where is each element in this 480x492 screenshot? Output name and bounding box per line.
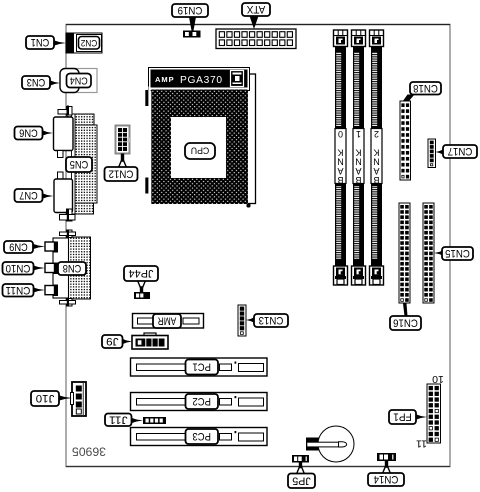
label CN2 xyxy=(79,37,100,50)
svg-text:CN10: CN10 xyxy=(6,262,31,274)
jumper JP5 xyxy=(292,455,309,463)
svg-text:J11: J11 xyxy=(109,413,128,425)
label CN15 xyxy=(434,247,473,260)
svg-text:A: A xyxy=(337,166,343,176)
label CN1 xyxy=(26,36,66,49)
header J11 xyxy=(143,417,166,424)
header CN15 xyxy=(423,203,434,303)
socket left tabs xyxy=(145,87,150,196)
svg-text:A: A xyxy=(355,166,361,176)
svg-text:J10: J10 xyxy=(36,392,55,404)
svg-text:PC3: PC3 xyxy=(192,430,211,442)
label CN9 xyxy=(4,241,45,254)
svg-text:0: 0 xyxy=(338,129,343,139)
svg-text:ATX: ATX xyxy=(246,3,265,15)
CPU socket lever bar xyxy=(247,74,255,204)
svg-text:JP44: JP44 xyxy=(129,267,154,279)
socket text AMP PGA370 xyxy=(155,75,223,86)
DIMM slot BANK 0 xyxy=(334,30,348,285)
label CN4 xyxy=(67,74,92,88)
label CN10 xyxy=(3,262,46,275)
svg-text:CN1: CN1 xyxy=(31,36,50,48)
label AMR xyxy=(153,314,181,328)
svg-text:PC2: PC2 xyxy=(192,395,211,407)
svg-text:CN12: CN12 xyxy=(109,168,134,180)
CPU socket outline xyxy=(149,68,250,91)
connector CN2 xyxy=(66,33,102,53)
jack CN9 xyxy=(45,242,58,253)
svg-text:N: N xyxy=(373,157,380,167)
header CN17 xyxy=(428,139,436,168)
CN8 stipple block xyxy=(53,237,91,299)
svg-text:CN18: CN18 xyxy=(413,82,438,94)
svg-text:11: 11 xyxy=(416,438,427,450)
svg-text:CN11: CN11 xyxy=(6,284,31,296)
svg-text:CN2: CN2 xyxy=(81,37,98,48)
header J10 xyxy=(71,382,87,416)
header CN12 xyxy=(116,126,131,154)
bracket face plate xyxy=(72,114,76,214)
mounting tabs top xyxy=(58,106,72,116)
svg-text:CN15: CN15 xyxy=(445,247,470,259)
svg-text:N: N xyxy=(337,157,344,167)
svg-text:CN5: CN5 xyxy=(70,158,89,170)
label J10 xyxy=(31,391,72,406)
CN8 tabs xyxy=(60,230,76,307)
DIMM slot BANK 1 xyxy=(352,30,366,285)
svg-text:CN6: CN6 xyxy=(19,127,38,139)
CPU socket body (pin field) xyxy=(151,90,247,205)
svg-text:CPU: CPU xyxy=(191,146,210,156)
small tab between CN6/CN7 xyxy=(58,151,64,180)
svg-text:N: N xyxy=(355,157,362,167)
label ATX xyxy=(242,3,270,29)
svg-text:CN19: CN19 xyxy=(178,4,203,16)
pin number 10 xyxy=(432,373,444,385)
label CN13 xyxy=(246,314,288,327)
label CPU xyxy=(185,143,215,159)
label CN14 xyxy=(368,460,404,487)
svg-text:CN16: CN16 xyxy=(393,317,418,329)
AMR slot xyxy=(133,314,204,329)
svg-text:1: 1 xyxy=(356,129,361,139)
header CN16 xyxy=(399,203,410,303)
svg-text:PC1: PC1 xyxy=(192,361,211,373)
svg-text:CN13: CN13 xyxy=(259,314,284,326)
svg-text:CN17: CN17 xyxy=(448,145,473,157)
mounting tabs bottom xyxy=(60,209,76,222)
label J11 xyxy=(105,413,143,426)
svg-text:2: 2 xyxy=(374,129,379,139)
header FP1 xyxy=(427,384,441,443)
svg-text:FP1: FP1 xyxy=(393,411,412,423)
ATX power connector xyxy=(216,29,296,49)
label PC1 xyxy=(186,360,219,375)
svg-text:AMP: AMP xyxy=(155,75,175,84)
component J9 xyxy=(132,333,168,349)
svg-text:CN7: CN7 xyxy=(19,189,38,201)
battery holder clip xyxy=(306,438,319,451)
board outline xyxy=(66,25,450,467)
connector CN6 (D-sub) xyxy=(54,117,74,151)
label CN6 xyxy=(15,127,54,140)
label CN3 xyxy=(22,76,60,89)
label CN7 xyxy=(15,189,54,202)
label FP1 xyxy=(389,410,427,424)
label CN18 xyxy=(403,82,442,102)
header CN13 xyxy=(238,305,246,336)
header CN18 xyxy=(400,101,411,180)
jack CN10 xyxy=(45,263,58,275)
label CN5 xyxy=(66,157,92,172)
label CN16 xyxy=(390,304,421,331)
svg-text:CN3: CN3 xyxy=(27,76,46,88)
jumper JP44 xyxy=(134,292,150,299)
svg-text:K: K xyxy=(373,147,379,157)
svg-text:J9: J9 xyxy=(106,335,118,347)
label J9 xyxy=(102,335,132,348)
slot PC2 xyxy=(131,393,268,411)
label PC3 xyxy=(186,429,219,444)
svg-text:K: K xyxy=(355,147,361,157)
svg-text:10: 10 xyxy=(432,373,444,385)
label JP5 xyxy=(288,462,315,489)
svg-text:CN4: CN4 xyxy=(69,75,87,86)
svg-text:PGA370: PGA370 xyxy=(180,75,223,86)
label CN8 xyxy=(58,262,86,275)
svg-text:CN14: CN14 xyxy=(374,473,399,485)
svg-text:JP5: JP5 xyxy=(292,474,311,486)
socket logo box xyxy=(231,71,244,87)
battery xyxy=(307,426,354,462)
svg-text:A: A xyxy=(373,166,379,176)
label CN12 xyxy=(105,154,138,182)
socket bottom-right tab xyxy=(247,204,251,208)
CN5/CN6/CN7 I/O bracket stipple xyxy=(67,114,98,214)
label CN17 xyxy=(436,145,478,158)
silkscreen 36905 xyxy=(72,445,106,459)
pin number 11 xyxy=(416,438,427,450)
label JP44 xyxy=(124,266,158,293)
svg-text:36905: 36905 xyxy=(72,445,106,459)
connector CN4 xyxy=(60,69,97,93)
svg-text:CN9: CN9 xyxy=(9,241,28,253)
slot PC3 xyxy=(131,428,268,446)
label CN19 xyxy=(172,4,208,31)
DIMM slot BANK 2 xyxy=(370,30,384,285)
connector CN14 xyxy=(377,453,396,461)
svg-text:CN8: CN8 xyxy=(63,262,82,274)
slot PC1 xyxy=(131,358,268,376)
connector CN7 (D-sub) xyxy=(54,179,73,213)
svg-text:K: K xyxy=(337,147,343,157)
label PC2 xyxy=(186,394,219,409)
jack CN11 xyxy=(45,285,58,297)
label CN11 xyxy=(3,284,46,297)
svg-text:AMR: AMR xyxy=(158,315,177,327)
connector CN19 xyxy=(183,31,201,38)
